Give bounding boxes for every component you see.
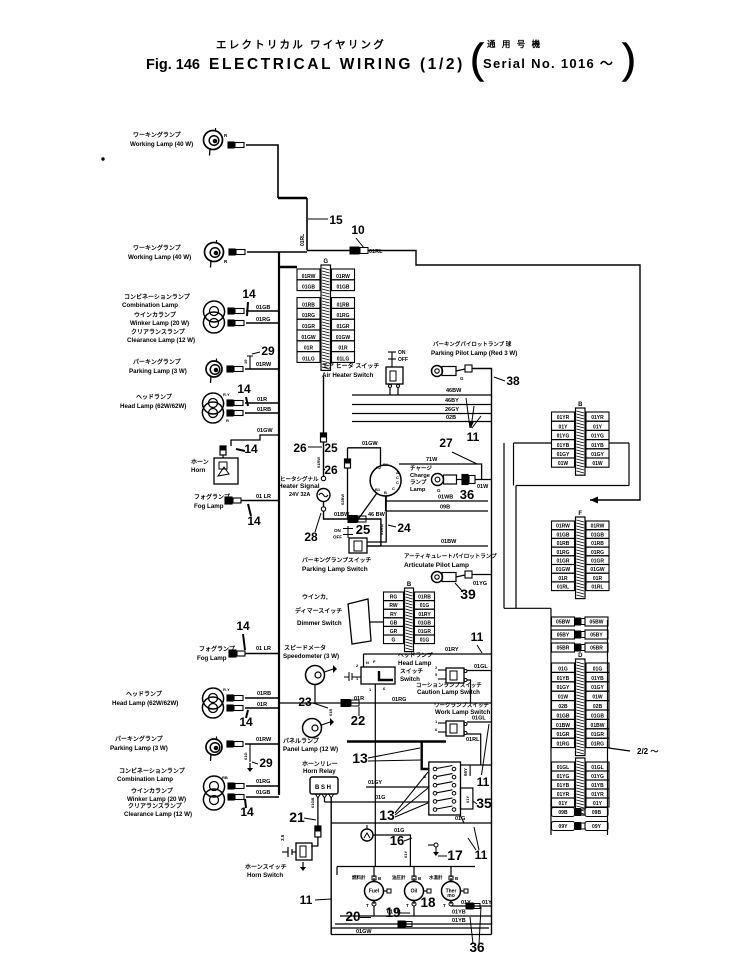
svg-text:01GB: 01GB: [310, 797, 315, 808]
svg-text:01Y: 01Y: [482, 900, 492, 906]
svg-text:B: B: [418, 876, 422, 881]
svg-text:01YR: 01YR: [591, 415, 604, 421]
svg-text:09B: 09B: [592, 810, 602, 816]
svg-text:01GW: 01GW: [336, 335, 350, 341]
svg-text:09B: 09B: [558, 810, 568, 816]
svg-text:14: 14: [236, 619, 250, 633]
svg-text:01RG: 01RG: [256, 779, 270, 785]
svg-text:01GW: 01GW: [356, 929, 372, 935]
svg-text:ワーキングランプ: ワーキングランプ: [133, 244, 182, 252]
svg-text:22: 22: [351, 713, 365, 728]
svg-text:13: 13: [352, 750, 368, 766]
svg-text:25: 25: [356, 522, 370, 537]
svg-text:01GR: 01GR: [418, 629, 431, 635]
svg-text:01 LR: 01 LR: [256, 494, 271, 500]
svg-text:14: 14: [237, 382, 251, 396]
svg-text:46BW: 46BW: [446, 388, 462, 394]
svg-text:16: 16: [390, 833, 404, 848]
svg-text:ヒータシグナル: ヒータシグナル: [280, 475, 319, 483]
svg-text:01BW: 01BW: [591, 723, 605, 729]
svg-text:水温計: 水温計: [429, 874, 443, 881]
svg-text:01GR: 01GR: [591, 732, 604, 738]
svg-text:01Y: 01Y: [593, 801, 603, 807]
svg-text:G: G: [460, 376, 464, 381]
svg-text:14: 14: [242, 287, 256, 301]
svg-text:01GL: 01GL: [474, 664, 488, 670]
svg-text:ヘッドランプ: ヘッドランプ: [126, 690, 163, 698]
svg-text:01GR: 01GR: [591, 559, 604, 565]
svg-text:09Y: 09Y: [592, 824, 602, 830]
svg-text:27: 27: [439, 436, 453, 450]
svg-text:14: 14: [240, 805, 254, 819]
svg-text:01YR: 01YR: [557, 415, 570, 421]
svg-text:GB: GB: [390, 620, 398, 626]
svg-text:01RB: 01RB: [257, 407, 271, 413]
svg-text:ELECTRICAL WIRING (1/2): ELECTRICAL WIRING (1/2): [209, 56, 465, 73]
svg-text:01Y: 01Y: [559, 424, 569, 430]
svg-text:01GL: 01GL: [557, 765, 570, 771]
svg-text:19: 19: [385, 905, 400, 920]
svg-text:01RG: 01RG: [591, 550, 604, 556]
svg-text:(: (: [470, 35, 484, 82]
svg-text:25: 25: [324, 441, 338, 455]
svg-text:通 用 号 機: 通 用 号 機: [487, 39, 542, 49]
svg-text:01YB: 01YB: [557, 676, 570, 682]
svg-text:01GW: 01GW: [257, 428, 273, 434]
svg-text:01R: 01R: [593, 576, 603, 582]
svg-text:24: 24: [397, 521, 411, 535]
svg-text:01RB: 01RB: [337, 302, 350, 308]
svg-text:Articulate Pilot Lamp: Articulate Pilot Lamp: [404, 562, 469, 569]
svg-text:B: B: [384, 490, 387, 495]
svg-text:C: C: [392, 486, 395, 491]
svg-text:ウインカランプ: ウインカランプ: [131, 787, 174, 795]
svg-text:21: 21: [289, 809, 305, 825]
svg-text:01GR: 01GR: [556, 559, 569, 565]
svg-text:ウインカランプ: ウインカランプ: [134, 311, 177, 319]
svg-text:05BW: 05BW: [590, 619, 604, 625]
svg-text:ON: ON: [334, 528, 341, 533]
svg-text:Parking Lamp (3 W): Parking Lamp (3 W): [129, 368, 187, 375]
svg-text:29: 29: [259, 756, 273, 770]
svg-text:RY: RY: [390, 612, 397, 618]
svg-text:Panel Lamp (12 W): Panel Lamp (12 W): [283, 746, 338, 753]
svg-text:B: B: [578, 402, 583, 408]
svg-text:1: 1: [369, 687, 372, 692]
svg-text:01W: 01W: [477, 484, 489, 490]
svg-text:RB: RB: [222, 775, 228, 780]
svg-text:01GB: 01GB: [556, 532, 569, 538]
svg-text:Fig. 146: Fig. 146: [146, 57, 200, 73]
svg-text:36: 36: [469, 940, 485, 954]
svg-text:01YR: 01YR: [557, 792, 570, 798]
svg-text:02B: 02B: [446, 415, 456, 421]
svg-text:01GY: 01GY: [368, 780, 382, 786]
svg-text:1: 1: [435, 719, 438, 724]
svg-text:T: T: [366, 903, 369, 908]
svg-text:R.Y: R.Y: [223, 687, 230, 692]
svg-text:09B: 09B: [440, 505, 450, 511]
svg-text:F: F: [373, 659, 376, 664]
svg-text:46BY: 46BY: [445, 398, 459, 404]
svg-text:01G: 01G: [558, 666, 568, 672]
svg-text:エレクトリカル ワイヤリング: エレクトリカル ワイヤリング: [216, 38, 386, 51]
svg-text:05BY: 05BY: [557, 632, 570, 638]
svg-text:): ): [622, 35, 636, 82]
svg-text:2: 2: [435, 665, 438, 670]
svg-text:スイッチ: スイッチ: [400, 668, 423, 675]
svg-text:ディマースイッチ: ディマースイッチ: [295, 607, 342, 615]
svg-text:01RB: 01RB: [418, 595, 431, 601]
svg-text:クリアランスランプ: クリアランスランプ: [131, 328, 186, 336]
svg-text:燃料計: 燃料計: [352, 874, 366, 881]
svg-text:01RG: 01RG: [336, 313, 349, 319]
svg-text:01G: 01G: [375, 795, 385, 801]
svg-text:01GY: 01GY: [591, 452, 604, 458]
svg-text:01YR: 01YR: [591, 792, 604, 798]
svg-text:ヘッドランプ: ヘッドランプ: [398, 651, 433, 659]
svg-text:Horn: Horn: [191, 467, 206, 474]
svg-text:01YB: 01YB: [591, 783, 604, 789]
svg-text:Fog Lamp: Fog Lamp: [197, 655, 227, 662]
svg-text:11: 11: [300, 893, 313, 907]
svg-text:G: G: [392, 638, 396, 644]
svg-text:01RW: 01RW: [379, 524, 384, 535]
svg-text:01YB: 01YB: [591, 443, 604, 449]
svg-text:01RW: 01RW: [302, 274, 316, 280]
svg-text:RG: RG: [390, 595, 398, 601]
svg-text:01G: 01G: [243, 752, 248, 760]
svg-text:T: T: [406, 903, 409, 908]
svg-text:B: B: [407, 582, 412, 588]
svg-text:01RB: 01RB: [557, 541, 570, 547]
svg-text:Horn Switch: Horn Switch: [247, 872, 283, 879]
svg-text:01LG: 01LG: [302, 356, 315, 362]
svg-text:5: 5: [435, 672, 438, 677]
svg-text:01LG: 01LG: [337, 356, 350, 362]
svg-text:01GR: 01GR: [302, 324, 315, 330]
svg-text:ヘッドランプ: ヘッドランプ: [136, 393, 173, 401]
svg-text:01GL: 01GL: [591, 765, 604, 771]
svg-text:26: 26: [324, 463, 338, 477]
svg-text:ホーン: ホーン: [191, 459, 209, 466]
svg-text:6: 6: [435, 727, 438, 732]
svg-text:02BW: 02BW: [340, 494, 345, 505]
svg-text:チャージ: チャージ: [410, 465, 432, 472]
svg-text:11: 11: [477, 775, 490, 789]
svg-text:01RL: 01RL: [591, 585, 603, 591]
svg-text:R: R: [226, 418, 229, 423]
svg-text:01RW: 01RW: [256, 737, 272, 743]
svg-text:Combination Lamp: Combination Lamp: [117, 776, 173, 783]
svg-text:01 LR: 01 LR: [256, 646, 271, 652]
svg-text:エア ヒータ スイッチ: エア ヒータ スイッチ: [322, 362, 379, 370]
svg-text:01GR: 01GR: [336, 324, 349, 330]
svg-text:パーキングランプ: パーキングランプ: [115, 735, 164, 743]
svg-text:01R: 01R: [257, 702, 267, 708]
svg-text:Head Lamp (62W/62W): Head Lamp (62W/62W): [120, 403, 186, 410]
svg-text:6: 6: [383, 686, 386, 691]
svg-text:38: 38: [506, 374, 520, 388]
svg-text:01Y: 01Y: [593, 424, 603, 430]
svg-text:01Y: 01Y: [559, 801, 569, 807]
svg-text:コンビネーションランプ: コンビネーションランプ: [119, 767, 186, 775]
svg-text:01GB: 01GB: [418, 620, 431, 626]
svg-text:コーションランプスイッチ: コーションランプスイッチ: [416, 681, 482, 689]
svg-text:01RG: 01RG: [556, 550, 569, 556]
svg-text:01GL: 01GL: [472, 716, 486, 722]
svg-text:Parking Lamp Switch: Parking Lamp Switch: [302, 566, 368, 573]
svg-text:01RW: 01RW: [556, 524, 570, 530]
svg-text:01GB: 01GB: [591, 532, 604, 538]
svg-text:パーキングランプ: パーキングランプ: [133, 358, 182, 366]
svg-text:ワークランプスイッチ: ワークランプスイッチ: [434, 701, 489, 709]
svg-text:R: R: [224, 133, 228, 138]
svg-text:14: 14: [247, 514, 261, 528]
svg-text:05BW: 05BW: [556, 619, 570, 625]
svg-text:3.5: 3.5: [280, 834, 285, 841]
svg-text:OFF: OFF: [333, 535, 342, 540]
svg-text:01YB: 01YB: [452, 918, 466, 924]
svg-text:D: D: [578, 653, 583, 659]
svg-text:ホーンリレー: ホーンリレー: [302, 761, 338, 768]
svg-text:Lamp: Lamp: [410, 487, 426, 493]
svg-text:B1: B1: [383, 462, 389, 467]
svg-text:01RG: 01RG: [591, 742, 604, 748]
svg-text:Winker Lamp (20 W): Winker Lamp (20 W): [130, 320, 189, 327]
svg-text:01RG: 01RG: [256, 317, 270, 323]
svg-text:01W: 01W: [558, 461, 569, 467]
svg-text:油圧計: 油圧計: [392, 874, 406, 881]
svg-text:23: 23: [298, 695, 312, 709]
svg-text:Heater Signal: Heater Signal: [278, 483, 320, 490]
svg-text:01RG: 01RG: [392, 697, 406, 703]
svg-text:01YB: 01YB: [452, 910, 466, 916]
svg-text:01BW: 01BW: [441, 539, 457, 545]
svg-text:Fog Lamp: Fog Lamp: [194, 503, 224, 510]
svg-text:01R: 01R: [354, 696, 364, 702]
svg-text:01G: 01G: [420, 603, 430, 609]
svg-text:Serial No. 1016 ～: Serial No. 1016 ～: [483, 56, 614, 71]
svg-text:26GY: 26GY: [445, 407, 459, 413]
svg-text:01BW: 01BW: [556, 723, 570, 729]
svg-text:アーティキュレートパイロットランプ: アーティキュレートパイロットランプ: [404, 552, 497, 560]
svg-text:スピードメータ: スピードメータ: [284, 644, 326, 652]
svg-text:46 BW: 46 BW: [368, 512, 386, 518]
svg-text:mo: mo: [447, 893, 455, 899]
svg-text:66Y: 66Y: [463, 768, 468, 776]
svg-text:ワーキングランプ: ワーキングランプ: [133, 131, 182, 139]
svg-text:Combination Lamp: Combination Lamp: [122, 302, 178, 309]
svg-text:01Y: 01Y: [465, 796, 470, 803]
svg-text:11: 11: [475, 848, 488, 862]
svg-text:01GW: 01GW: [556, 567, 570, 573]
svg-text:01GW: 01GW: [301, 335, 315, 341]
svg-text:09Y: 09Y: [559, 824, 569, 830]
svg-text:01RL: 01RL: [300, 234, 306, 246]
svg-text:02B: 02B: [593, 704, 603, 710]
svg-text:01YG: 01YG: [591, 434, 604, 440]
svg-text:35: 35: [476, 795, 492, 811]
svg-text:OFF: OFF: [398, 357, 408, 363]
svg-text:01R: 01R: [257, 397, 267, 403]
svg-text:GR: GR: [390, 629, 398, 635]
svg-text:01RW: 01RW: [591, 524, 605, 530]
svg-text:05BR: 05BR: [557, 645, 570, 651]
svg-text:RW: RW: [389, 603, 398, 609]
svg-text:ホーンスイッチ: ホーンスイッチ: [245, 864, 287, 871]
svg-text:18: 18: [420, 895, 436, 910]
svg-text:Fuel: Fuel: [369, 889, 380, 895]
svg-text:26: 26: [293, 441, 307, 455]
svg-text:R.Y: R.Y: [223, 392, 230, 397]
svg-text:Clearance Lamp (12 W): Clearance Lamp (12 W): [127, 337, 195, 344]
svg-text:Dimmer Switch: Dimmer Switch: [297, 620, 342, 627]
svg-text:13: 13: [379, 807, 395, 823]
svg-text:39: 39: [460, 586, 476, 602]
svg-text:2: 2: [356, 663, 359, 668]
svg-text:01R: 01R: [304, 346, 314, 352]
svg-text:01G: 01G: [593, 666, 603, 672]
svg-text:15: 15: [329, 213, 343, 227]
svg-text:01RB: 01RB: [257, 691, 271, 697]
svg-text:B1: B1: [375, 487, 381, 492]
svg-text:01GY: 01GY: [557, 452, 570, 458]
svg-text:クリアランスランプ: クリアランスランプ: [128, 802, 183, 810]
svg-text:02B: 02B: [558, 704, 568, 710]
svg-text:01W: 01W: [592, 695, 603, 701]
svg-text:28: 28: [304, 530, 318, 544]
svg-text:R2: R2: [376, 465, 382, 470]
svg-text:パネルランプ: パネルランプ: [283, 737, 320, 745]
svg-text:05BY: 05BY: [590, 632, 603, 638]
svg-text:ウインカ,: ウインカ,: [302, 593, 328, 601]
svg-text:01R: 01R: [338, 346, 348, 352]
svg-text:B S H: B S H: [315, 785, 331, 791]
svg-text:01Y: 01Y: [403, 851, 408, 858]
svg-text:20: 20: [345, 909, 360, 924]
svg-text:G: G: [323, 259, 328, 265]
svg-text:01RG: 01RG: [302, 313, 315, 319]
svg-text:01YG: 01YG: [557, 434, 570, 440]
svg-text:01GR: 01GR: [556, 732, 569, 738]
svg-text:01RB: 01RB: [302, 302, 315, 308]
svg-text:01RB: 01RB: [591, 541, 604, 547]
svg-text:01G: 01G: [420, 638, 430, 644]
svg-text:19: 19: [243, 359, 248, 364]
svg-text:17: 17: [447, 847, 463, 863]
svg-text:01YB: 01YB: [557, 783, 570, 789]
svg-text:コンビネーションランプ: コンビネーションランプ: [124, 293, 191, 301]
svg-text:Winker Lamp (20 W): Winker Lamp (20 W): [127, 796, 186, 803]
svg-text:T: T: [443, 903, 446, 908]
svg-text:01GB: 01GB: [556, 713, 569, 719]
svg-text:Parking Lamp (3 W): Parking Lamp (3 W): [110, 745, 168, 752]
svg-text:01GB: 01GB: [302, 285, 315, 291]
svg-text:Head Lamp (62W/62W): Head Lamp (62W/62W): [112, 700, 178, 707]
svg-text:01YG: 01YG: [557, 774, 570, 780]
svg-text:ON: ON: [398, 350, 406, 356]
svg-text:B: B: [378, 876, 382, 881]
svg-text:01WB: 01WB: [438, 495, 453, 501]
svg-text:01GB: 01GB: [591, 713, 604, 719]
svg-text:Air Heater Switch: Air Heater Switch: [322, 372, 373, 379]
svg-text:C: C: [396, 480, 399, 485]
svg-text:01RG: 01RG: [556, 742, 569, 748]
svg-text:01YG: 01YG: [591, 774, 604, 780]
svg-text:01GY: 01GY: [591, 685, 604, 691]
svg-text:Switch: Switch: [400, 676, 420, 683]
svg-text:01G: 01G: [455, 816, 465, 822]
svg-text:Head Lamp: Head Lamp: [398, 660, 432, 667]
svg-text:G: G: [437, 488, 441, 493]
svg-text:36: 36: [460, 487, 474, 502]
svg-text:01YB: 01YB: [557, 443, 570, 449]
svg-text:N: N: [366, 660, 369, 665]
svg-text:29: 29: [261, 344, 275, 358]
svg-text:Working Lamp (40 W): Working Lamp (40 W): [128, 254, 191, 261]
svg-text:01YB: 01YB: [591, 676, 604, 682]
svg-text:14: 14: [244, 442, 258, 456]
svg-text:パーキングランプスイッチ: パーキングランプスイッチ: [302, 556, 371, 564]
svg-text:01W: 01W: [558, 695, 569, 701]
svg-text:01RW: 01RW: [256, 362, 272, 368]
svg-text:01GY: 01GY: [557, 685, 570, 691]
svg-text:71W: 71W: [426, 457, 438, 463]
svg-text:F: F: [578, 511, 582, 517]
svg-text:11: 11: [471, 630, 484, 644]
svg-text:2/2 ～: 2/2 ～: [637, 747, 658, 756]
svg-text:ランプ: ランプ: [410, 478, 427, 486]
svg-text:05BR: 05BR: [590, 645, 603, 651]
svg-text:Parking Pilot Lamp (Red 3 W): Parking Pilot Lamp (Red 3 W): [431, 350, 517, 357]
svg-text:01RW: 01RW: [316, 457, 321, 468]
svg-text:パーキングパイロットランプ 球: パーキングパイロットランプ 球: [433, 340, 512, 348]
svg-text:Oil: Oil: [411, 889, 418, 895]
svg-text:B: B: [455, 876, 459, 881]
svg-text:01R: 01R: [328, 709, 333, 716]
svg-text:01RY: 01RY: [418, 612, 431, 618]
svg-text:01W: 01W: [592, 461, 603, 467]
svg-text:24V 32A: 24V 32A: [289, 492, 310, 498]
svg-text:11: 11: [467, 430, 480, 444]
svg-text:01R: 01R: [558, 576, 568, 582]
svg-text:10: 10: [351, 223, 365, 237]
svg-text:R: R: [224, 259, 228, 264]
svg-text:Speedometer (3 W): Speedometer (3 W): [283, 653, 339, 660]
svg-text:01GB: 01GB: [256, 790, 270, 796]
svg-text:Horn Relay: Horn Relay: [303, 768, 336, 775]
svg-text:01RL: 01RL: [557, 585, 569, 591]
svg-text:Charge: Charge: [410, 473, 431, 479]
svg-text:Clearance Lamp (12 W): Clearance Lamp (12 W): [124, 811, 192, 818]
svg-text:01GB: 01GB: [256, 305, 270, 311]
svg-text:01RL: 01RL: [466, 737, 480, 743]
svg-text:01RW: 01RW: [336, 274, 350, 280]
svg-text:01GW: 01GW: [590, 567, 604, 573]
svg-text:01RY: 01RY: [445, 647, 459, 653]
svg-text:01GB: 01GB: [336, 285, 349, 291]
svg-text:Working Lamp (40 W): Working Lamp (40 W): [130, 141, 193, 148]
svg-text:01GW: 01GW: [362, 441, 378, 447]
